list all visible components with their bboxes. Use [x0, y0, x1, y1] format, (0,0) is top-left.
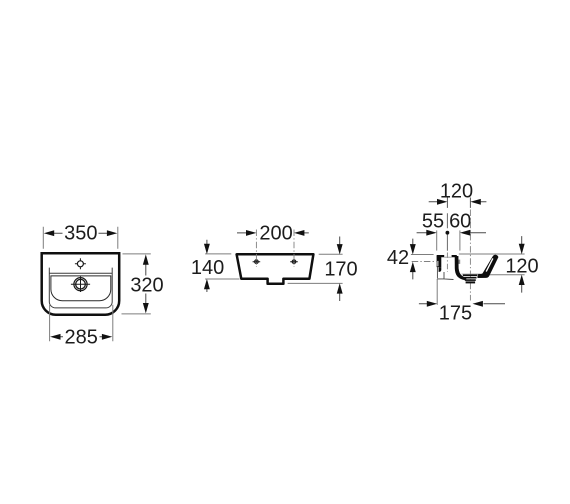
- svg-text:175: 175: [439, 302, 472, 324]
- svg-text:140: 140: [191, 257, 224, 279]
- svg-text:42: 42: [387, 247, 409, 269]
- svg-text:200: 200: [259, 223, 292, 245]
- svg-text:55: 55: [422, 211, 444, 233]
- svg-text:285: 285: [65, 327, 98, 349]
- svg-text:120: 120: [505, 255, 538, 277]
- svg-text:120: 120: [440, 181, 473, 203]
- svg-text:320: 320: [130, 274, 163, 296]
- svg-text:170: 170: [324, 259, 357, 281]
- svg-text:60: 60: [449, 211, 471, 233]
- svg-text:350: 350: [64, 222, 97, 244]
